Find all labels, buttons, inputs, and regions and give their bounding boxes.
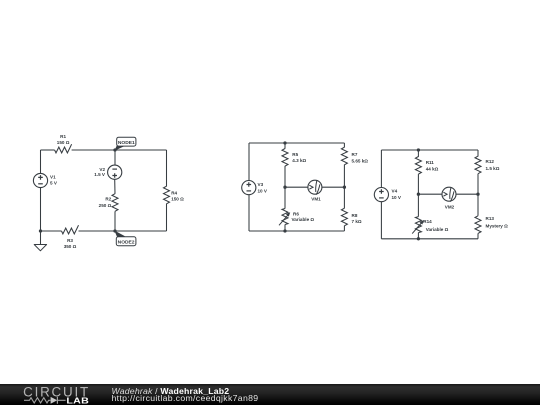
label R8 value	[352, 213, 362, 224]
svg-text:350 Ω: 350 Ω	[64, 244, 77, 249]
svg-text:Variable Ω: Variable Ω	[292, 217, 315, 222]
footer title link	[112, 386, 230, 396]
label R5 value	[292, 152, 306, 163]
resistor R8	[341, 208, 347, 226]
junction dot top middle (right circuit)	[417, 148, 420, 151]
junction dot at ground	[39, 229, 42, 232]
svg-text:R14: R14	[423, 219, 432, 224]
logo diode	[51, 397, 58, 404]
wire right rail top (middle circuit)	[343, 143, 345, 147]
footer url link	[112, 393, 259, 403]
junction dot bottom middle (right circuit)	[417, 237, 420, 240]
label R12 value	[486, 159, 500, 171]
junction dot mid-right (right circuit)	[476, 193, 479, 196]
svg-text:44 kΩ: 44 kΩ	[426, 166, 439, 171]
wire left rail bottom segment (left circuit)	[40, 188, 42, 232]
resistor R1	[55, 144, 72, 153]
svg-text:150 Ω: 150 Ω	[171, 197, 184, 202]
label R3 value	[64, 238, 77, 249]
svg-text:R2: R2	[105, 197, 111, 202]
wire right rail bottom (left circuit)	[166, 204, 168, 231]
svg-text:LAB: LAB	[66, 396, 89, 405]
junction dot bottom middle	[283, 229, 286, 232]
svg-text:5.65 kΩ: 5.65 kΩ	[352, 158, 369, 163]
svg-text:NODE1: NODE1	[118, 140, 135, 146]
wire R6 to bottom	[284, 225, 286, 232]
wire R11 to mid junction	[417, 174, 419, 194]
wire middle branch top (left circuit)	[114, 150, 116, 165]
resistor R2	[112, 194, 118, 212]
wire VM2 to right rail	[456, 193, 478, 195]
voltmeter VM1	[308, 180, 322, 195]
wire left rail top (right circuit)	[380, 150, 382, 188]
svg-text:R6: R6	[293, 212, 299, 217]
wire left rail top segment (left circuit)	[40, 150, 42, 174]
wire R8 to bottom (middle circuit)	[343, 226, 345, 231]
resistor R3	[62, 225, 79, 234]
wire left rail bottom (right circuit)	[380, 202, 382, 239]
svg-text:10 V: 10 V	[258, 189, 268, 194]
wire left rail top (middle circuit)	[248, 143, 250, 181]
wire right rail top (left circuit)	[166, 150, 168, 186]
wire top (right circuit)	[381, 149, 478, 151]
voltmeter VM2	[442, 187, 456, 202]
label R7 value	[352, 152, 369, 163]
svg-text:V1: V1	[50, 175, 56, 180]
svg-text:250 Ω: 250 Ω	[99, 203, 112, 208]
wire top right of R1	[72, 149, 167, 151]
svg-text:R11: R11	[426, 160, 435, 165]
wire VM1 to right rail	[322, 186, 345, 188]
label R14 value	[423, 219, 448, 232]
svg-text:V3: V3	[258, 182, 264, 187]
wire bottom (right circuit)	[381, 238, 478, 240]
label R1 value	[57, 134, 70, 145]
wire mid junction to R14	[417, 194, 419, 216]
logo resistor zigzag	[24, 398, 50, 403]
label R6 value	[292, 212, 315, 223]
label V3 value	[258, 182, 268, 194]
resistor R14 (variable)	[415, 217, 421, 233]
svg-text:VM2: VM2	[445, 205, 455, 210]
svg-text:R13: R13	[486, 216, 495, 221]
label R13 value	[486, 216, 509, 229]
wire V2 to R2	[114, 179, 116, 194]
resistor R5	[282, 149, 288, 167]
svg-text:R5: R5	[292, 152, 298, 157]
wire top of R5	[284, 143, 286, 149]
svg-text:VM1: VM1	[311, 196, 321, 201]
svg-text:Variable Ω: Variable Ω	[426, 227, 449, 232]
CircuitLab logo	[0, 384, 110, 405]
wire mid junction to VM1	[285, 186, 308, 188]
node NODE2 flag	[114, 231, 125, 239]
node NODE1 junction dot	[113, 148, 116, 151]
svg-text:150 Ω: 150 Ω	[57, 140, 70, 145]
wire bottom right of R3	[79, 230, 167, 232]
junction dot top middle	[283, 141, 286, 144]
resistor R6 (variable)	[282, 209, 288, 225]
svg-text:R12: R12	[486, 159, 495, 164]
wire mid to R8	[343, 187, 345, 208]
wire R13 to bottom (right circuit)	[477, 233, 479, 238]
svg-text:R8: R8	[352, 213, 358, 218]
label V4 value	[392, 189, 402, 201]
svg-text:R3: R3	[67, 238, 73, 243]
voltage source V2	[108, 165, 122, 179]
svg-text:10 V: 10 V	[392, 195, 402, 200]
wire top (middle circuit)	[249, 142, 344, 144]
svg-text:NODE2: NODE2	[118, 240, 135, 246]
svg-text:1.5 kΩ: 1.5 kΩ	[486, 166, 500, 171]
wire top left of R1	[41, 149, 55, 151]
label R4 value	[171, 191, 184, 202]
wire top of R11	[417, 150, 419, 157]
label R2 value	[99, 197, 112, 208]
svg-text:4.3 kΩ: 4.3 kΩ	[292, 158, 306, 163]
resistor R7	[341, 147, 347, 165]
node NODE2 junction dot	[113, 229, 116, 232]
junction dot mid-left (middle circuit)	[283, 186, 286, 189]
svg-text:R4: R4	[171, 191, 177, 196]
svg-text:1.5 V: 1.5 V	[94, 172, 106, 177]
voltage source V3	[242, 181, 256, 195]
wire mid junction to R6	[284, 187, 286, 208]
junction dot mid-right (middle circuit)	[343, 186, 346, 189]
junction dot mid-left (right circuit)	[417, 193, 420, 196]
resistor R11	[415, 157, 421, 175]
voltage source V4	[374, 188, 388, 202]
svg-text:Mystery Ω: Mystery Ω	[486, 224, 509, 229]
svg-text:V4: V4	[392, 189, 398, 194]
wire R14 to bottom	[417, 233, 419, 239]
wire bottom left of R3	[41, 230, 62, 232]
svg-text:R7: R7	[352, 152, 358, 157]
voltage source V1	[33, 173, 47, 187]
wire mid junction to VM2	[418, 193, 442, 195]
svg-text:7 kΩ: 7 kΩ	[352, 219, 362, 224]
wire R2 to bottom (left circuit)	[114, 211, 116, 231]
wire R5 to mid junction	[284, 166, 286, 187]
wire R7 to mid (middle circuit)	[343, 165, 345, 188]
svg-text:R1: R1	[60, 134, 66, 139]
label V2 value	[94, 167, 106, 177]
wire left rail bottom (middle circuit)	[248, 195, 250, 231]
resistor R13	[475, 216, 481, 234]
wire bottom (middle circuit)	[249, 230, 344, 232]
svg-text:5 V: 5 V	[50, 180, 58, 185]
wire R12 to mid (right circuit)	[477, 174, 479, 195]
label V1 value	[50, 175, 58, 186]
wire mid to R13	[477, 194, 479, 216]
node NODE1 flag	[114, 144, 125, 151]
ground	[40, 231, 42, 245]
resistor R4	[164, 186, 170, 204]
wire right rail top (right circuit)	[477, 150, 479, 157]
resistor R12	[475, 156, 481, 174]
label R11 value	[426, 160, 439, 172]
